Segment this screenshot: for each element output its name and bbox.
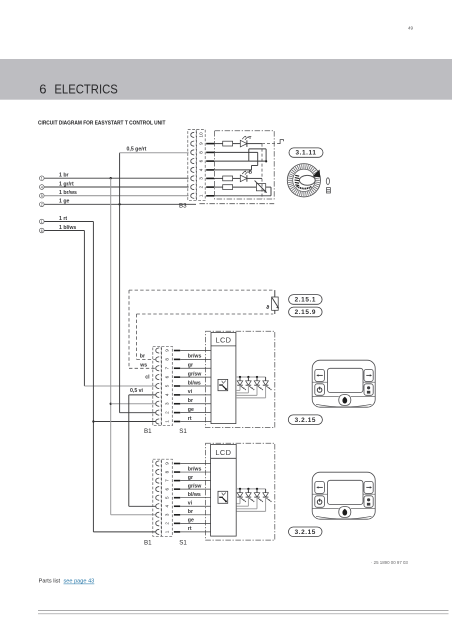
svg-text:8: 8	[165, 358, 170, 361]
wire gr/sw to LCD module 1	[180, 376, 211, 378]
svg-text:5: 5	[41, 194, 43, 198]
label 2.15.1	[289, 295, 323, 305]
LED supply bus module 1	[236, 376, 266, 378]
svg-text:LCD: LCD	[215, 336, 231, 345]
B1/S1 module 1 contact 9	[156, 348, 159, 353]
dashed sensor wire br	[137, 313, 274, 315]
svg-text:3.2.15: 3.2.15	[295, 417, 316, 424]
svg-text:2.15.1: 2.15.1	[295, 297, 316, 304]
svg-text:vi: vi	[188, 501, 193, 507]
svg-text:3.1.11: 3.1.11	[295, 150, 316, 157]
label 3.2.15 (2)	[289, 527, 323, 537]
B1/S1 module 1 contact 1	[156, 419, 159, 424]
riser rt	[92, 222, 94, 532]
svg-text:bl/ws: bl/ws	[188, 380, 201, 386]
B1/S1 module 2 contact 2	[156, 521, 159, 526]
svg-text:4: 4	[165, 505, 170, 508]
wire vi to module2 S1	[129, 505, 156, 507]
svg-text:2: 2	[165, 411, 170, 414]
riser 0,5 vi	[128, 395, 130, 506]
wire br/ws to LCD module 2	[180, 471, 210, 473]
remote control unit 1: heat button with flame	[339, 395, 351, 406]
svg-text:0,5 vi: 0,5 vi	[130, 388, 144, 394]
LCD block module 2	[211, 444, 237, 536]
svg-text:see page 43: see page 43	[64, 579, 95, 585]
B3 contact pin 1	[191, 193, 194, 198]
remote control unit 2: display	[328, 480, 364, 504]
B3 pin 1 stub	[206, 195, 214, 197]
connector B1 module 1	[153, 346, 161, 425]
connector B1 module 2	[153, 459, 161, 536]
remote control unit 1: housing	[312, 360, 375, 407]
svg-text:3: 3	[165, 402, 170, 405]
remote control unit 2: housing	[312, 472, 375, 519]
svg-text:B1: B1	[144, 428, 152, 435]
riser ge/rt	[119, 153, 121, 413]
svg-text:6: 6	[165, 375, 170, 378]
temperature sensor (NTC)	[274, 290, 276, 297]
wire 1 br/ws to B3 pin 1 (gray)	[44, 195, 188, 197]
node on pin6 row	[265, 160, 267, 162]
wire bridge	[249, 148, 266, 150]
wire pin2 row	[214, 186, 223, 188]
terminal 1 (1 br)	[40, 176, 45, 181]
wire br/ws to LCD module 1	[180, 358, 211, 360]
svg-text:3: 3	[165, 513, 170, 516]
LED 4 module 1	[265, 377, 267, 381]
wire pin4 row	[214, 169, 252, 171]
LED 1 module 2	[239, 488, 241, 490]
center button	[299, 175, 315, 185]
LED 3 module 2	[256, 488, 258, 490]
svg-text:T: T	[249, 135, 252, 140]
wire ge to module1 S1	[120, 412, 156, 414]
B3 pin 6 stub	[206, 160, 214, 162]
wire gr to LCD module 1	[180, 367, 211, 369]
svg-text:4: 4	[41, 185, 43, 189]
B1/S1 module 2 contact 5	[156, 495, 159, 500]
svg-text:br: br	[140, 354, 145, 360]
svg-text:2: 2	[199, 185, 204, 188]
svg-text:8: 8	[165, 470, 170, 473]
junction br at module1 br row	[110, 403, 112, 405]
remote control unit 1: back button	[315, 369, 325, 381]
LED 2 module 1	[247, 376, 249, 378]
header gray bar	[0, 59, 452, 100]
wire rt to module2 S1	[93, 531, 155, 533]
timer-switch symbol module 2	[218, 491, 228, 503]
wire rt to module1 S1	[93, 421, 155, 423]
svg-text:ws: ws	[139, 362, 147, 368]
svg-text:9: 9	[199, 142, 204, 145]
remote control unit 1: forward button	[364, 369, 373, 381]
dashed sensor wire ws	[129, 289, 273, 291]
svg-text:gr: gr	[188, 363, 193, 369]
svg-text:1 gr/rt: 1 gr/rt	[59, 181, 74, 187]
B1/S1 module 2 contact 1	[156, 529, 159, 534]
B1/S1 module 1 contact 7	[156, 366, 159, 371]
wire vi to LCD module 2	[180, 505, 210, 507]
LCD block module 1	[211, 332, 236, 423]
side connector body	[327, 188, 331, 193]
svg-text:1: 1	[165, 420, 170, 423]
resistor R2	[223, 176, 233, 181]
wire pin1 row	[214, 195, 271, 197]
wire nc to LCD module 1	[180, 350, 211, 352]
outer boundary segment	[199, 203, 274, 205]
junction on 1 br	[110, 177, 112, 179]
remote control unit 2: back button	[315, 481, 325, 493]
terminal 2 (1 ge)	[40, 202, 45, 207]
B1/S1 module 1 contact 6	[156, 375, 159, 380]
svg-text:6: 6	[199, 159, 204, 162]
wire vi to module1 S1	[129, 394, 156, 396]
svg-text:cl: cl	[145, 374, 150, 380]
B1/S1 module 1 contact 8	[156, 357, 159, 362]
wire br to module2 S1	[111, 514, 156, 516]
LED 4 return wire module 1	[265, 385, 267, 398]
svg-text:1 bl/ws: 1 bl/ws	[59, 225, 76, 231]
B3 pin 2 stub	[206, 186, 214, 188]
svg-text:7: 7	[165, 367, 170, 370]
LED supply bus module 2	[236, 488, 265, 490]
svg-text:1 br: 1 br	[59, 173, 69, 179]
wire ge to LCD module 1	[180, 412, 211, 414]
svg-text:10: 10	[199, 132, 204, 138]
svg-text:gr/sw: gr/sw	[188, 483, 203, 489]
svg-text:S1: S1	[179, 540, 187, 547]
svg-text:6: 6	[165, 487, 170, 490]
wire bl/ws to LCD module 2	[180, 497, 210, 499]
svg-text:br: br	[188, 398, 193, 404]
bezel tick ring	[288, 164, 320, 196]
svg-text:49: 49	[408, 26, 414, 31]
wire br to LCD module 2	[180, 514, 210, 516]
svg-text:0,5 ge/rt: 0,5 ge/rt	[127, 147, 147, 153]
antenna symbol	[277, 140, 283, 144]
label 3.2.15 (1)	[288, 415, 322, 425]
svg-text:5: 5	[165, 384, 170, 387]
junction rt at module1 rt row	[92, 420, 94, 422]
footer rule	[38, 610, 449, 612]
svg-text:3: 3	[199, 177, 204, 180]
wire pin8 row maze	[214, 151, 258, 153]
riser br (gray)	[110, 178, 112, 515]
terminal 5 (1 br/ws)	[40, 193, 45, 198]
remote control unit 2: heat button with flame	[339, 507, 351, 518]
wire 0,5 ge/rt to B3	[120, 152, 189, 154]
wire rt to LCD module 2	[180, 531, 210, 533]
wire 1 bl/ws	[44, 230, 84, 232]
wire br to module1 S1	[111, 403, 156, 405]
svg-text:1: 1	[199, 194, 204, 197]
B3 pin 8 stub	[206, 152, 214, 154]
svg-text:br/ws: br/ws	[188, 466, 202, 472]
svg-text:ϑ: ϑ	[266, 305, 269, 311]
side connector pin	[326, 178, 329, 185]
LED B diode	[240, 175, 247, 182]
B1/S1 module 2 contact 7	[156, 478, 159, 483]
svg-text:8: 8	[199, 151, 204, 154]
svg-text:6: 6	[39, 82, 47, 97]
remote control unit 1: mode button	[364, 384, 373, 396]
B3 contact pin 6	[191, 159, 194, 164]
timer-switch symbol module 1	[218, 379, 228, 390]
svg-text:7: 7	[165, 479, 170, 482]
svg-text:2: 2	[165, 522, 170, 525]
B1/S1 module 2 contact 8	[156, 469, 159, 474]
svg-text:1: 1	[41, 220, 43, 224]
svg-text:Parts list: Parts list	[39, 579, 61, 585]
LED 4 module 2	[265, 489, 267, 493]
terminal 6 (1 bl/ws)	[40, 228, 45, 233]
timer module 1 enclosure	[206, 331, 275, 427]
remote control unit 2: on/off button	[315, 496, 325, 508]
B1/S1 module 2 contact 3	[156, 512, 159, 517]
connector B3 socket column	[188, 130, 196, 201]
svg-text:LCD: LCD	[215, 448, 231, 457]
LED 1 return wire module 1	[239, 385, 241, 390]
B1/S1 module 1 contact 2	[156, 410, 159, 415]
LED 3 return wire module 1	[256, 385, 258, 395]
terminal 4 (1 gr/rt)	[40, 185, 45, 190]
B1/S1 module 2 contact 6	[156, 487, 159, 492]
B3 contact pin 8	[191, 150, 194, 155]
svg-text:3.2.15: 3.2.15	[295, 529, 316, 536]
wire bl/ws to LCD module 1	[180, 385, 211, 387]
terminal 1 (1 rt)	[40, 219, 45, 224]
B3 contact pin 2	[191, 185, 194, 190]
B3 contact pin 4	[191, 167, 194, 172]
svg-text:ELECTRICS: ELECTRICS	[54, 83, 117, 97]
remote control unit 2: mode button	[364, 496, 373, 508]
wire rt to LCD module 1	[180, 421, 211, 423]
svg-text:gr: gr	[188, 475, 193, 481]
wire 1 rt	[44, 221, 93, 223]
svg-text:· 25 1890 00 97 03: · 25 1890 00 97 03	[371, 560, 408, 565]
svg-text:9: 9	[165, 349, 170, 352]
B3 contact pin 10	[191, 132, 194, 137]
resistor R3	[223, 185, 233, 190]
svg-text:2.15.9: 2.15.9	[295, 309, 316, 316]
svg-text:1: 1	[165, 530, 170, 533]
LED 1 return wire module 2	[239, 497, 241, 504]
B3 pin 3 stub	[206, 178, 214, 180]
svg-text:rt: rt	[188, 416, 192, 422]
svg-text:1 rt: 1 rt	[59, 216, 67, 222]
svg-text:6: 6	[41, 229, 43, 233]
remote control unit 1: display	[328, 368, 364, 392]
svg-text:CIRCUIT DIAGRAM FOR EASYSTART: CIRCUIT DIAGRAM FOR EASYSTART T CONTROL …	[38, 120, 166, 126]
svg-text:br/ws: br/ws	[188, 354, 202, 360]
wire br to LCD module 1	[180, 403, 211, 405]
B3 pin 9 stub	[206, 143, 214, 145]
B1/S1 module 2 contact 9	[156, 461, 159, 466]
remote control unit 1: on/off button	[315, 384, 325, 396]
bezel pointer wedge	[313, 170, 321, 178]
svg-text:4: 4	[165, 393, 170, 396]
svg-text:S1: S1	[179, 428, 187, 435]
svg-text:ge: ge	[188, 518, 194, 524]
label 2.15.9	[289, 307, 323, 317]
wire 1 gr/rt to B3 pin 2	[44, 186, 188, 188]
antenna link (dashed)	[261, 144, 263, 199]
B3 pin 4 stub	[206, 169, 214, 171]
control-unit module box	[215, 131, 275, 199]
LED T diode	[240, 140, 247, 147]
svg-text:B3: B3	[179, 203, 187, 210]
round control element (mini timer)	[287, 164, 320, 197]
wire nc to LCD module 2	[180, 463, 210, 465]
LED 2 return wire module 2	[247, 497, 249, 506]
label 3.1.11	[289, 148, 323, 157]
LED 3 return wire module 2	[256, 497, 258, 509]
wire pin3 row	[214, 177, 223, 179]
svg-text:5: 5	[165, 496, 170, 499]
wire 1 ge	[44, 203, 196, 205]
svg-text:B1: B1	[144, 540, 152, 547]
B1/S1 module 1 contact 5	[156, 383, 159, 388]
svg-text:2: 2	[41, 203, 43, 207]
wire ge to LCD module 2	[180, 522, 210, 524]
junction 1 ge / ge-rt riser	[118, 203, 120, 205]
B1/S1 module 2 contact 4	[156, 504, 159, 509]
wire pin9 row	[214, 143, 223, 145]
logo text block	[295, 175, 300, 185]
svg-text:vi: vi	[188, 389, 193, 395]
LED 4 return wire module 2	[265, 497, 267, 511]
wire gr/sw to LCD module 2	[180, 488, 210, 490]
svg-text:9: 9	[165, 462, 170, 465]
connector B3 pin-number column	[197, 130, 206, 201]
LED 2 module 2	[247, 488, 249, 490]
B3 contact pin 9	[191, 141, 194, 146]
wire vi to LCD module 1	[180, 394, 211, 396]
svg-text:br: br	[188, 509, 193, 515]
svg-text:rt: rt	[188, 526, 192, 532]
LED 2 return wire module 1	[247, 385, 249, 393]
riser bl/ws	[83, 231, 85, 387]
LED 3 module 1	[256, 376, 258, 378]
wire 1 br to B3 pin 3	[44, 177, 188, 179]
svg-text:bl/ws: bl/ws	[188, 492, 201, 498]
svg-text:1: 1	[41, 176, 43, 180]
wire pin6 row	[214, 160, 266, 162]
photoresistor	[256, 184, 265, 191]
timer module 2 enclosure	[206, 443, 275, 540]
LED 1 module 1	[239, 376, 241, 378]
svg-text:gr/sw: gr/sw	[188, 371, 203, 377]
wire gr to LCD module 2	[180, 480, 210, 482]
remote control unit 2: forward button	[364, 481, 373, 493]
svg-text:1 ge: 1 ge	[59, 199, 69, 205]
svg-text:ge: ge	[188, 407, 194, 413]
B1/S1 module 1 contact 3	[156, 401, 159, 406]
resistor R1	[223, 141, 233, 146]
svg-text:4: 4	[199, 168, 204, 171]
B3 contact pin 3	[191, 176, 194, 181]
B1/S1 module 1 contact 4	[156, 392, 159, 397]
curved brand text	[297, 186, 312, 188]
